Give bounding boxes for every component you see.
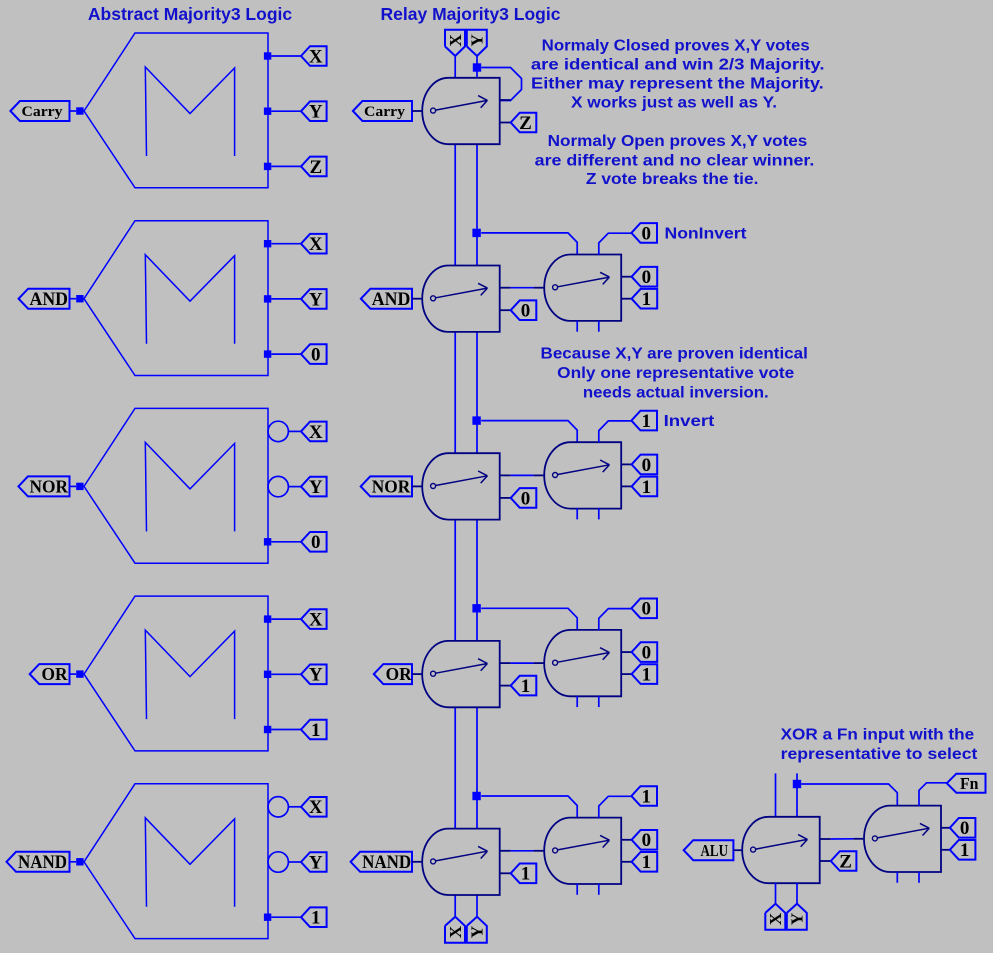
svg-text:0: 0 <box>642 455 652 476</box>
svg-text:Z: Z <box>839 851 852 872</box>
node junction Y-K2b <box>472 229 480 237</box>
pin square M2 out X <box>264 240 271 247</box>
wire <box>796 883 798 904</box>
wire junction to K-Fn <box>801 784 897 806</box>
svg-text:1: 1 <box>642 664 652 685</box>
output tag X of M1 <box>301 46 327 66</box>
wire K2 to K2b <box>511 287 534 289</box>
wire <box>70 485 77 487</box>
output tag X of M4 <box>301 609 327 629</box>
output tag 0 of K2b <box>632 267 658 287</box>
wire <box>271 243 301 245</box>
input tag NOR (relay column) <box>361 476 412 496</box>
output tag Y of K-ALU <box>787 904 807 930</box>
svg-text:Only one representative vote: Only one representative vote <box>557 365 795 382</box>
output tag Y of M3 <box>301 477 327 497</box>
svg-text:1: 1 <box>311 720 321 741</box>
input tag NAND (left column) <box>7 852 70 872</box>
pin stub K1 NO <box>500 122 511 124</box>
pin stub K3 coil <box>412 485 422 487</box>
wire <box>576 508 578 519</box>
svg-text:1: 1 <box>642 289 652 310</box>
relay K3 (NOR) <box>422 453 499 519</box>
pin square M4 input <box>76 670 83 677</box>
wire junction branch to K4b <box>481 608 577 630</box>
input tag NOR (left column) <box>18 476 69 496</box>
relay K2 (AND) <box>422 266 499 332</box>
node junction Y-K1 <box>473 63 481 71</box>
pin stub K2b out0 <box>621 276 631 278</box>
svg-text:1: 1 <box>311 908 321 929</box>
svg-text:X: X <box>766 912 785 925</box>
output tag X (bottom) <box>445 917 465 943</box>
svg-text:0: 0 <box>960 818 970 839</box>
pin square M1 out Z <box>264 163 271 170</box>
output tag 1 of K-Fn <box>950 840 976 860</box>
wire <box>271 110 301 112</box>
pin stub K4 coil <box>412 673 422 675</box>
wire net Y vertical rail <box>476 56 478 917</box>
pin stub K4 NC <box>500 662 511 664</box>
input tag X (top) <box>445 30 465 56</box>
pin stub K3b out0 <box>621 463 631 465</box>
pin square M3 input <box>76 483 83 490</box>
output tag 0 of M2 <box>301 344 327 364</box>
svg-text:X: X <box>309 234 323 255</box>
majority gate M1 body <box>84 33 268 188</box>
svg-text:0: 0 <box>311 532 321 553</box>
output tag 1 of M5 <box>301 907 327 927</box>
svg-text:Y: Y <box>309 289 323 310</box>
input tag Y (top) <box>467 30 487 56</box>
select tag 1 of K3b <box>631 411 657 431</box>
svg-text:OR: OR <box>42 664 68 684</box>
pin square M2 out Y <box>264 295 271 302</box>
svg-text:NAND: NAND <box>362 853 411 873</box>
wire ALU left pin up <box>775 773 777 817</box>
wire <box>896 872 898 883</box>
pin stub K5b out1 <box>621 861 631 863</box>
output tag 1 of M4 <box>301 720 327 740</box>
svg-text:0: 0 <box>521 301 531 322</box>
wire <box>271 55 301 57</box>
pin stub K2b coil <box>534 287 545 289</box>
output tag 0 of K4b <box>632 642 658 662</box>
wire K3 to K3b <box>511 474 534 476</box>
wire K5 to K5b <box>511 850 534 852</box>
svg-text:OR: OR <box>386 664 412 684</box>
wire <box>598 508 600 519</box>
relay K-ALU <box>742 817 820 883</box>
svg-text:0: 0 <box>641 599 651 620</box>
wire <box>288 430 301 432</box>
output tag 1 of K2b <box>632 289 658 309</box>
majority gate M4 body <box>84 596 268 751</box>
svg-text:Y: Y <box>309 665 323 686</box>
wire <box>576 696 578 707</box>
pin stub K1 coil <box>412 110 422 112</box>
pin square M4 out 1 <box>264 726 271 733</box>
input tag ALU <box>684 840 734 860</box>
relay K4b <box>544 630 621 696</box>
pin stub K-Fn out0 <box>941 827 950 829</box>
wire <box>271 916 301 918</box>
input tag Carry (relay column) <box>353 101 412 121</box>
majority gate M5 body <box>84 784 268 939</box>
output tag 1 of K5 <box>511 864 537 884</box>
wire <box>70 861 77 863</box>
pin stub K4b out0 <box>621 651 631 653</box>
svg-text:NOR: NOR <box>372 476 411 496</box>
svg-text:Carry: Carry <box>22 104 64 120</box>
svg-text:X: X <box>309 609 323 630</box>
wire <box>271 353 301 355</box>
output tag Z of K-ALU <box>831 851 857 871</box>
output tag X of M5 <box>301 797 327 817</box>
output tag 1 of K3b <box>632 477 658 497</box>
svg-text:Normaly Open proves X,Y votes: Normaly Open proves X,Y votes <box>548 133 808 150</box>
relay K-Fn <box>864 806 941 872</box>
svg-text:Y: Y <box>788 913 807 925</box>
wire <box>598 321 600 332</box>
wire <box>576 321 578 332</box>
svg-text:NOR: NOR <box>30 476 69 496</box>
wire junction branch to K5b <box>481 796 577 818</box>
pin square M1 out X <box>264 52 271 59</box>
svg-text:Invert: Invert <box>664 413 715 430</box>
node junction Y-K5b <box>472 792 480 800</box>
wire <box>576 884 578 895</box>
output tag 1 of K4 <box>511 676 537 696</box>
pin stub K-ALU NC <box>821 838 831 840</box>
input tag Carry (left column) <box>10 101 69 121</box>
svg-text:Because X,Y are proven identic: Because X,Y are proven identical <box>541 346 808 363</box>
svg-text:are identical and win 2/3 Majo: are identical and win 2/3 Majority. <box>531 57 825 74</box>
relay K4 (OR) <box>422 641 500 707</box>
svg-text:Y: Y <box>468 926 487 938</box>
svg-text:Relay Majority3 Logic: Relay Majority3 Logic <box>381 4 561 24</box>
pin stub K4 NO <box>500 685 511 687</box>
wire <box>70 110 77 112</box>
svg-text:Y: Y <box>309 477 323 498</box>
svg-text:Abstract Majority3 Logic: Abstract Majority3 Logic <box>88 4 292 24</box>
wire net X vertical rail <box>454 56 456 917</box>
input tag AND (relay column) <box>361 289 412 309</box>
wire ALU right pin up <box>796 773 798 817</box>
relay K5b <box>544 818 621 884</box>
input tag OR (left column) <box>30 664 70 684</box>
output tag Y of M4 <box>301 665 327 685</box>
svg-text:X: X <box>446 925 465 938</box>
output tag X of M2 <box>301 234 327 254</box>
relay K5 (NAND) <box>422 829 500 895</box>
wire <box>288 806 301 808</box>
pin stub K1 NC <box>500 99 511 101</box>
wire <box>271 298 301 300</box>
output tag 0 of K2 <box>511 300 537 320</box>
wire K2b select <box>599 233 632 255</box>
svg-text:1: 1 <box>642 852 652 873</box>
relay K3b <box>544 442 621 508</box>
wire <box>70 298 77 300</box>
svg-text:0: 0 <box>642 267 652 288</box>
output tag Y (bottom) <box>467 917 487 943</box>
pin stub K2 coil <box>412 298 422 300</box>
svg-text:1: 1 <box>642 477 652 498</box>
svg-text:X: X <box>309 797 323 818</box>
output tag 0 of K5b <box>632 830 658 850</box>
pin square M1 out Y <box>264 108 271 115</box>
svg-text:Z vote breaks the tie.: Z vote breaks the tie. <box>586 171 759 188</box>
wire junction branch to K2b <box>481 233 577 255</box>
output tag 1 of K5b <box>632 852 658 872</box>
svg-text:Carry: Carry <box>364 104 406 120</box>
input tag NAND (relay column) <box>351 852 412 872</box>
relay K2b <box>544 255 621 321</box>
pin stub K2 NC <box>500 287 511 289</box>
output tag 0 of K3b <box>632 455 658 475</box>
node junction ALU-Fn <box>793 780 801 788</box>
svg-text:1: 1 <box>641 411 651 432</box>
output tag Y of M5 <box>301 852 327 872</box>
wire <box>70 673 77 675</box>
svg-text:X: X <box>309 46 323 67</box>
wire <box>288 486 301 488</box>
pin stub K2 NO <box>500 309 511 311</box>
pin square M2 input <box>76 295 83 302</box>
output tag Fn <box>947 774 986 793</box>
wire <box>598 884 600 895</box>
svg-text:Y: Y <box>309 102 323 123</box>
svg-text:are different and no clear win: are different and no clear winner. <box>535 153 815 170</box>
pin stub K2b out1 <box>621 298 631 300</box>
svg-text:Y: Y <box>468 34 487 46</box>
pin stub K4b out1 <box>621 673 631 675</box>
svg-text:Y: Y <box>309 852 323 873</box>
inverter bubble M3 out Y <box>268 476 288 496</box>
select tag 0 of K4b <box>631 599 657 619</box>
svg-text:1: 1 <box>521 864 531 885</box>
pin stub K5 NO <box>500 872 511 874</box>
output tag 0 of K-Fn <box>950 818 976 838</box>
wire <box>288 861 301 863</box>
wire K4b select <box>599 609 632 631</box>
output tag 1 of K4b <box>632 664 658 684</box>
pin square M1 input <box>76 107 83 114</box>
pin stub K3b coil <box>534 474 545 476</box>
pin square M2 out 0 <box>264 350 271 357</box>
pin square M5 out 1 <box>264 914 271 921</box>
pin stub K5b coil <box>534 850 545 852</box>
svg-text:0: 0 <box>521 488 531 509</box>
node junction Y-K3b <box>472 416 480 424</box>
svg-text:X works just as well as Y.: X works just as well as Y. <box>571 95 777 112</box>
svg-text:X: X <box>309 422 323 443</box>
pin stub K5 NC <box>500 850 511 852</box>
output tag 0 of K3 <box>511 488 537 508</box>
wire K-Fn select <box>919 783 947 806</box>
svg-text:needs actual inversion.: needs actual inversion. <box>583 385 769 402</box>
pin stub K-Fn out1 <box>941 849 950 851</box>
svg-text:NAND: NAND <box>18 853 67 873</box>
svg-text:Z: Z <box>309 157 322 178</box>
svg-text:1: 1 <box>521 676 531 697</box>
svg-text:NonInvert: NonInvert <box>665 225 747 242</box>
output tag 0 of M3 <box>301 532 327 552</box>
pin square M4 out Y <box>264 671 271 678</box>
inverter bubble M3 out X <box>268 421 288 441</box>
inverter bubble M5 out Y <box>268 852 288 872</box>
pin stub K3b out1 <box>621 485 631 487</box>
pin stub K4b coil <box>534 662 545 664</box>
svg-text:representative to select: representative to select <box>781 746 978 763</box>
svg-text:Normaly Closed proves X,Y vote: Normaly Closed proves X,Y votes <box>542 38 810 55</box>
svg-text:AND: AND <box>30 289 69 310</box>
svg-text:X: X <box>446 33 465 46</box>
output tag Y of M1 <box>301 101 327 121</box>
pin stub K-ALU NO <box>821 860 831 862</box>
pin square M3 out 0 <box>264 538 271 545</box>
input tag AND (left column) <box>19 289 70 309</box>
wire <box>271 729 301 731</box>
wire K3b select <box>599 421 632 443</box>
majority gate M3 body <box>84 408 268 563</box>
svg-text:1: 1 <box>641 786 651 807</box>
pin square M4 out X <box>264 615 271 622</box>
pin square M5 input <box>76 858 83 865</box>
output tag X of K-ALU <box>765 904 785 930</box>
svg-text:0: 0 <box>311 344 321 365</box>
wire <box>918 872 920 883</box>
svg-text:ALU: ALU <box>701 841 729 860</box>
wire K5b select <box>599 796 632 818</box>
pin stub K-Fn coil <box>853 838 864 840</box>
wire K4 to K4b <box>511 662 534 664</box>
output tag Z of K1 <box>511 113 537 133</box>
svg-text:Z: Z <box>519 113 532 134</box>
output tag Z of M1 <box>301 157 327 177</box>
relay K1 (Carry) <box>422 78 499 144</box>
svg-text:AND: AND <box>372 289 411 310</box>
svg-text:XOR a Fn input with the: XOR a Fn input with the <box>781 726 975 743</box>
svg-text:Either may represent the Major: Either may represent the Majority. <box>531 76 824 93</box>
node junction Y-K4b <box>472 604 480 612</box>
svg-text:Fn: Fn <box>960 774 979 793</box>
inverter bubble M5 out X <box>268 797 288 817</box>
pin stub K3 NO <box>500 497 511 499</box>
pin stub K-ALU coil <box>733 849 742 851</box>
svg-text:1: 1 <box>960 840 970 861</box>
wire feedback loop K1 <box>481 68 521 101</box>
output tag Y of M2 <box>301 289 327 309</box>
wire <box>775 883 777 904</box>
svg-text:0: 0 <box>642 830 652 851</box>
wire <box>271 165 301 167</box>
wire K-ALU to K-Fn <box>831 838 854 840</box>
majority gate M2 body <box>84 221 268 376</box>
wire <box>598 696 600 707</box>
wire <box>271 618 301 620</box>
pin stub K3 NC <box>500 474 511 476</box>
select tag 1 of K5b <box>631 786 657 806</box>
svg-text:0: 0 <box>642 642 652 663</box>
input tag OR (relay column) <box>374 664 412 684</box>
svg-text:0: 0 <box>641 223 651 244</box>
wire junction branch to K3b <box>481 421 577 443</box>
output tag X of M3 <box>301 422 327 442</box>
pin stub K5b out0 <box>621 839 631 841</box>
select tag 0 of K2b <box>631 223 657 243</box>
pin stub K5 coil <box>412 861 422 863</box>
wire <box>271 673 301 675</box>
wire <box>271 541 301 543</box>
